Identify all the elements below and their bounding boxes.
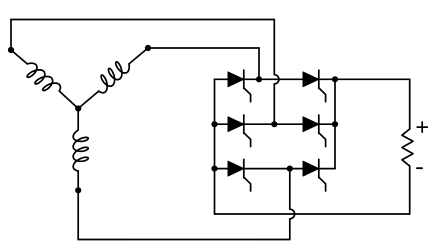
neutral node of Y connection [75, 105, 81, 111]
wire row 1 to DC+ bus [319, 78, 335, 80]
label + (load polarity) [417, 122, 427, 132]
label - (load polarity) [417, 167, 422, 169]
node row 2 on DC- bus [211, 121, 217, 127]
wire row 2 anode feed (left) [215, 123, 229, 125]
wire DC- bus (left vertical) [214, 79, 216, 214]
wire row 3 anode feed (left) [215, 168, 229, 170]
wire DC+ bus (right vertical) [334, 79, 336, 168]
thyristor SCR6 (row 3 right) [303, 159, 326, 191]
wire row 1 middle [244, 78, 303, 80]
node A junction [8, 47, 14, 53]
wire load bottom lead [409, 166, 411, 214]
winding C lead (lower) [77, 171, 79, 190]
node B junction [145, 45, 151, 51]
wire top phase-A rail [11, 19, 274, 21]
wire DC+ to load [335, 78, 410, 80]
node row 3 phase tap [287, 166, 293, 172]
wire winding C to bottom rail [77, 190, 79, 239]
wire phase-B rail [148, 47, 259, 49]
wire node A riser [10, 20, 12, 51]
winding B lead (lower) [78, 91, 99, 108]
wire bottom phase-C rail [78, 239, 290, 241]
thyristor SCR5 (row 3 left) [228, 159, 251, 191]
wire row 3 to DC+ bus [319, 168, 335, 170]
winding A lead (upper) [11, 50, 27, 64]
wire row 2 to DC+ bus [319, 123, 335, 125]
winding A (alternator phase A coil) [27, 63, 60, 91]
winding A lead (lower) [59, 91, 78, 108]
thyristor SCR3 (row 2 left) [228, 115, 251, 147]
node row 2 on DC+ bus [332, 121, 338, 127]
thyristor SCR2 (row 1 right) [303, 70, 326, 102]
node row 2 phase tap [271, 121, 277, 127]
load resistor [402, 129, 413, 166]
wire row 1 anode feed (left) [215, 78, 229, 80]
winding B (alternator phase B coil) [99, 62, 130, 93]
thyristor SCR1 (row 1 left) [228, 70, 251, 102]
wire phase-B riser [258, 48, 260, 79]
node row 1 on DC+ bus [332, 76, 338, 82]
wire DC- bottom rail [215, 213, 410, 215]
winding C lead (upper) [77, 109, 79, 131]
winding B lead (upper) [129, 48, 148, 64]
node row 3 on DC- bus [211, 166, 217, 172]
wire row 3 middle [244, 168, 303, 170]
wire phase-A riser with hop over row 1 [274, 20, 279, 125]
winding C (alternator phase C coil) [73, 130, 88, 171]
thyristor SCR4 (row 2 right) [303, 115, 326, 147]
node under winding C [75, 187, 81, 193]
node row 1 phase tap [256, 76, 262, 82]
wire row 2 middle [244, 123, 303, 125]
wire load top lead [409, 79, 411, 129]
wire phase-C riser with hop over DC- wire [290, 169, 295, 240]
